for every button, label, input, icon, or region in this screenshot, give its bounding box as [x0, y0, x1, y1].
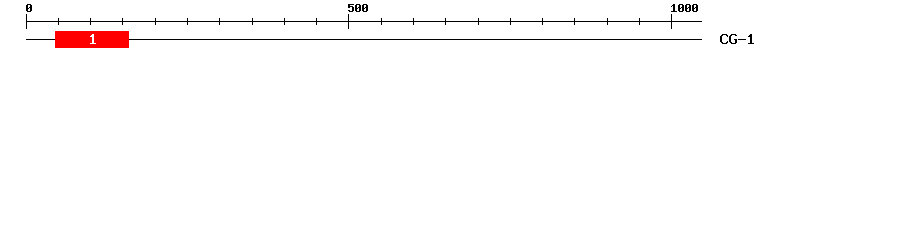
ruler minor tick 950	[639, 18, 640, 25]
ruler minor tick 450	[316, 18, 317, 25]
ruler major tick 500	[348, 14, 349, 29]
ruler minor tick 300	[219, 18, 220, 25]
feature label 1	[90, 34, 96, 44]
ruler label 1000	[671, 4, 698, 12]
ruler minor tick 700	[478, 18, 479, 25]
track line	[26, 39, 702, 40]
ruler minor tick 900	[607, 18, 608, 25]
ruler minor tick 600	[413, 18, 414, 25]
ruler minor tick 200	[155, 18, 156, 25]
ruler label 500	[348, 4, 368, 12]
ruler minor tick 50	[58, 18, 59, 25]
ruler minor tick 850	[574, 18, 575, 25]
ruler minor tick 100	[90, 18, 91, 25]
background	[0, 0, 900, 58]
feature box 1	[55, 31, 129, 48]
ruler major tick 0	[26, 14, 27, 29]
ruler axis line	[26, 21, 702, 22]
ruler label 0	[26, 4, 32, 12]
ruler minor tick 800	[542, 18, 543, 25]
ruler minor tick 650	[445, 18, 446, 25]
track name CG-1	[720, 34, 754, 44]
ruler major tick 1000	[671, 14, 672, 29]
ruler minor tick 750	[510, 18, 511, 25]
ruler minor tick 400	[284, 18, 285, 25]
ruler minor tick 550	[381, 18, 382, 25]
ruler minor tick 150	[122, 18, 123, 25]
ruler minor tick 350	[252, 18, 253, 25]
ruler minor tick 250	[187, 18, 188, 25]
